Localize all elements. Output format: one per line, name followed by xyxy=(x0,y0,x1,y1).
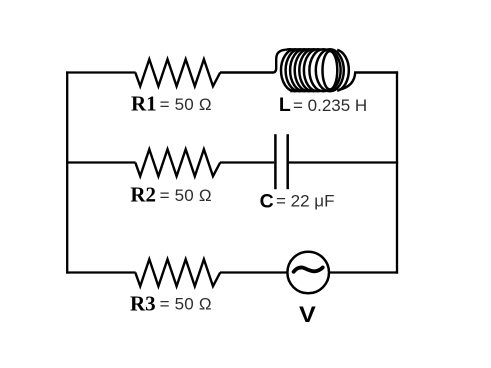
svg-text:= 0.235 H: = 0.235 H xyxy=(293,96,367,115)
svg-text:= 22 μF: = 22 μF xyxy=(276,191,334,210)
svg-text:C: C xyxy=(260,190,274,212)
AC source V1 circle xyxy=(287,252,329,294)
capacitor C1 plate left xyxy=(274,134,277,189)
resistor R1 xyxy=(135,59,220,86)
wire between L and right rail xyxy=(340,73,399,90)
wire between R2 and C xyxy=(220,161,274,163)
resistor R3 xyxy=(135,259,220,286)
svg-text:R1: R1 xyxy=(131,91,157,115)
svg-text:= 50 Ω: = 50 Ω xyxy=(160,295,212,314)
svg-text:L: L xyxy=(279,94,291,116)
wire between V source and right rail xyxy=(329,271,398,273)
wire between C and right rail xyxy=(289,161,398,163)
wire between R3 and V source xyxy=(220,271,288,273)
wire bottom-left segment xyxy=(66,271,136,273)
resistor R2 xyxy=(135,149,220,176)
left rail wire xyxy=(66,71,68,273)
svg-text:R2: R2 xyxy=(130,183,156,207)
svg-text:R3: R3 xyxy=(130,291,156,315)
wire between R1 and L xyxy=(220,50,286,73)
inductor L1 coil xyxy=(281,49,349,91)
svg-text:= 50 Ω: = 50 Ω xyxy=(160,186,212,205)
AC source V1 sine tilde xyxy=(294,267,323,271)
svg-text:V: V xyxy=(299,302,316,327)
wire middle-left segment xyxy=(66,161,136,163)
svg-text:= 50 Ω: = 50 Ω xyxy=(160,95,212,114)
right rail wire xyxy=(396,71,398,273)
capacitor C1 plate right xyxy=(286,134,289,189)
wire top-left segment xyxy=(66,71,136,73)
